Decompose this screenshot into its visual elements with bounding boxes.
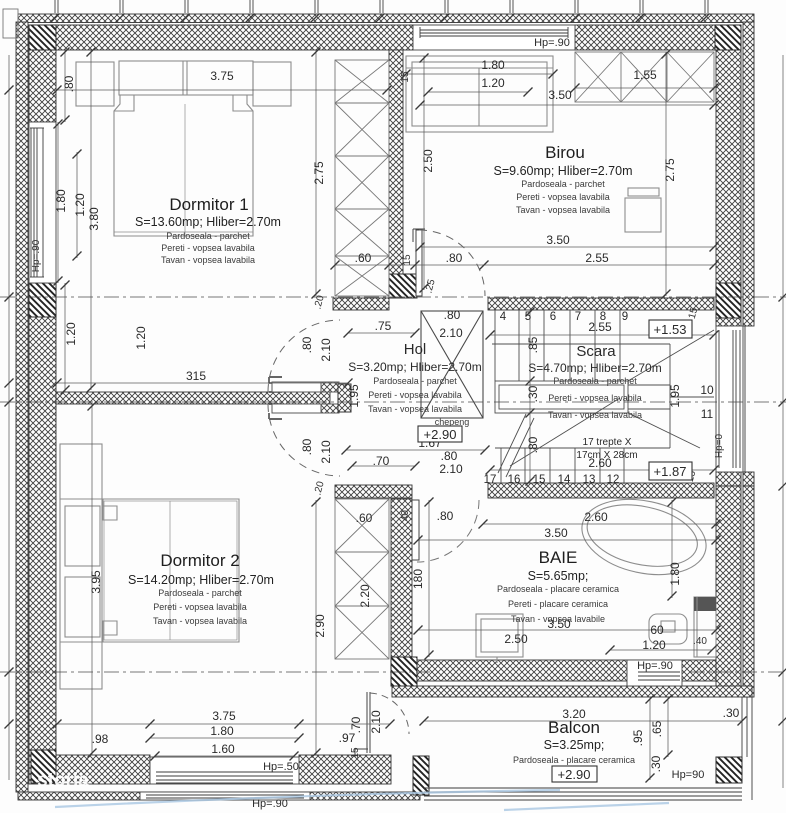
svg-text:1.20: 1.20 <box>64 322 78 346</box>
wall right between windows <box>716 318 741 326</box>
watermark blue wave <box>55 790 669 810</box>
axis line y297 <box>0 296 786 298</box>
staircase scara <box>492 310 714 484</box>
wall right thin band baie <box>743 486 754 697</box>
stair direction line <box>510 398 620 466</box>
svg-text:13: 13 <box>583 474 596 486</box>
svg-text:1.60: 1.60 <box>211 742 235 756</box>
pier balcon west <box>413 756 429 795</box>
dim birou 1.55 closet <box>575 87 714 89</box>
toilet baie <box>649 614 687 644</box>
dim baie 1.20 <box>610 649 712 651</box>
window lower floor bottom band <box>140 792 310 800</box>
dim 315 <box>57 382 348 384</box>
svg-text:.70: .70 <box>373 454 390 468</box>
dim baie 2.60 <box>483 523 716 525</box>
dim birou 1.20 <box>428 91 528 93</box>
svg-text:15: 15 <box>402 254 413 266</box>
svg-text:BAIE: BAIE <box>539 548 578 567</box>
svg-text:Pereti - vopsea lavabila: Pereti - vopsea lavabila <box>161 243 255 253</box>
svg-text:2.10: 2.10 <box>319 440 333 464</box>
dim scara 2.55 <box>490 334 714 336</box>
svg-text:1.80: 1.80 <box>210 724 234 738</box>
svg-text:.80: .80 <box>62 75 76 92</box>
svg-text:.95: .95 <box>631 729 645 746</box>
svg-text:1.55: 1.55 <box>633 68 657 82</box>
svg-text:6: 6 <box>550 311 556 323</box>
wall birou-scara <box>488 298 714 310</box>
svg-text:17 trepte X: 17 trepte X <box>583 437 632 448</box>
dim birou 3.50 top <box>420 104 714 106</box>
dim dorm1 3.80 <box>90 50 92 390</box>
svg-text:Hp=90: Hp=90 <box>672 769 705 781</box>
dim birou 1.80 couch <box>406 73 553 75</box>
svg-text:180: 180 <box>411 569 425 589</box>
svg-text:1.95: 1.95 <box>668 384 682 408</box>
dim scara vertical .85 .30 .80 <box>529 310 531 483</box>
dim baie 180 vertical left <box>428 500 430 657</box>
svg-text:Pardoseala - parchet: Pardoseala - parchet <box>373 376 457 386</box>
svg-text:2.50: 2.50 <box>421 149 435 173</box>
svg-text:.85: .85 <box>526 336 540 353</box>
svg-text:1.20: 1.20 <box>481 76 505 90</box>
svg-text:.60: .60 <box>355 251 372 265</box>
dim dorm1 .80 vertical <box>64 50 66 122</box>
pier balcon east corner <box>716 757 742 783</box>
wall left main mid <box>29 317 56 755</box>
svg-text:3.95: 3.95 <box>89 570 103 594</box>
axis line y672 <box>0 671 430 673</box>
svg-text:.80: .80 <box>300 336 314 353</box>
svg-text:Pardoseala - parchet: Pardoseala - parchet <box>521 179 605 189</box>
wall hol-dorm2 stub <box>335 485 412 498</box>
svg-text:.80: .80 <box>526 436 540 453</box>
svg-text:3.50: 3.50 <box>546 233 570 247</box>
nightstand dormitor1 left <box>76 62 114 106</box>
svg-text:S=5.65mp;: S=5.65mp; <box>528 569 589 583</box>
wall dormitor1-birou <box>389 50 403 274</box>
svg-text:Tavan - vopsea lavabila: Tavan - vopsea lavabila <box>161 255 255 265</box>
pier corner top-left <box>29 25 56 50</box>
nightstand dormitor1 right <box>253 62 291 106</box>
dim dorm2 2.90 vertical <box>315 500 317 755</box>
closet dormitor2 <box>335 499 389 659</box>
dim birou 2.75 vertical <box>665 52 667 296</box>
svg-text:3.75: 3.75 <box>212 709 236 723</box>
door leaf balcon <box>367 692 370 753</box>
window scara right Hp=0 <box>716 326 743 472</box>
wall baie bottom <box>417 660 716 681</box>
svg-text:S=4.70mp; Hliber=2.70m: S=4.70mp; Hliber=2.70m <box>528 361 661 375</box>
axis lines <box>0 297 786 672</box>
svg-text:Pereti - vopsea lavabila: Pereti - vopsea lavabila <box>548 393 642 403</box>
svg-text:Hp=.90: Hp=.90 <box>31 239 42 272</box>
dim dorm2 1.60 <box>155 755 294 757</box>
svg-text:1.95: 1.95 <box>347 384 361 408</box>
svg-text:Pardoseala - placare ceramica: Pardoseala - placare ceramica <box>497 584 619 594</box>
dim balcon .65 vertical <box>667 697 669 757</box>
pier dorm1-birou wall end <box>389 274 417 298</box>
wall top main <box>29 25 413 50</box>
door swing birou dashed <box>419 230 485 296</box>
svg-text:Dormitor 1: Dormitor 1 <box>169 195 248 214</box>
svg-text:S=14.20mp; Hliber=2.70m: S=14.20mp; Hliber=2.70m <box>128 573 274 587</box>
svg-text:+1.87: +1.87 <box>654 464 687 479</box>
svg-text:12: 12 <box>607 474 620 486</box>
svg-text:.80: .80 <box>300 438 314 455</box>
svg-text:2.90: 2.90 <box>313 614 327 638</box>
dim baie 3.50 top <box>418 539 716 541</box>
svg-text:.70: .70 <box>349 716 363 733</box>
svg-text:.80: .80 <box>444 308 461 322</box>
dim dorm1 1.20 <box>76 152 78 258</box>
tub baie <box>575 489 713 586</box>
cabinet baie right <box>694 597 716 657</box>
dim dorm1 1.20 lower <box>64 283 66 392</box>
closets <box>335 52 714 659</box>
svg-text:.80: .80 <box>441 449 458 463</box>
dim balcon 3.20 <box>424 720 742 722</box>
svg-text:1.80: 1.80 <box>668 562 682 586</box>
svg-text:Pereti - vopsea lavabila: Pereti - vopsea lavabila <box>368 390 462 400</box>
chepeng attic hatch <box>421 311 483 418</box>
svg-text:Hol: Hol <box>404 341 427 358</box>
svg-text:Dormitor 2: Dormitor 2 <box>160 551 239 570</box>
svg-text:2.50: 2.50 <box>504 632 528 646</box>
dim birou 3.50 bottom <box>420 246 714 248</box>
stair break line <box>498 414 534 477</box>
doors <box>268 229 485 757</box>
svg-text:.30: .30 <box>723 706 740 720</box>
wall dorm2-baie <box>391 499 412 657</box>
svg-text:3.80: 3.80 <box>87 207 101 231</box>
svg-text:2.60: 2.60 <box>584 510 608 524</box>
svg-text:1.20: 1.20 <box>73 193 87 217</box>
svg-text:2.75: 2.75 <box>312 161 326 185</box>
closet dormitor1 <box>335 60 389 296</box>
svg-text:.75: .75 <box>375 319 392 333</box>
pier corner bottom-left <box>31 750 56 783</box>
desk birou <box>628 188 659 196</box>
stair note <box>576 437 637 461</box>
svg-text:Hp=.90: Hp=.90 <box>252 798 288 810</box>
svg-text:.40: .40 <box>400 510 411 524</box>
hp window texts <box>252 37 704 810</box>
svg-text:Pereti - vopsea lavabila: Pereti - vopsea lavabila <box>153 602 247 612</box>
window dorm2 bottom Hp=.50 <box>150 757 299 784</box>
svg-text:15: 15 <box>350 747 361 759</box>
pier dorm2-baie wall bottom <box>391 657 417 686</box>
dimension texts horizontal <box>92 58 740 756</box>
svg-text:Tavan - vopsea lavabila: Tavan - vopsea lavabila <box>516 205 610 215</box>
window baie bottom Hp=.90 <box>627 660 682 686</box>
stair risers upper flight <box>495 310 620 381</box>
stair landing edge <box>492 343 670 345</box>
svg-text:17cm X 28cm: 17cm X 28cm <box>576 450 637 461</box>
svg-text:Pardoseala - parchet: Pardoseala - parchet <box>166 231 250 241</box>
stairwell right edge <box>669 344 671 448</box>
door swing dormitor1 dashed <box>268 320 340 392</box>
dim hol 1.67 <box>346 449 485 451</box>
dim baie 1.80 vertical <box>671 500 673 598</box>
dim margin left vertical <box>8 55 10 780</box>
svg-text:9: 9 <box>622 311 628 323</box>
svg-text:11: 11 <box>701 407 714 421</box>
svg-text:5: 5 <box>525 311 531 323</box>
svg-text:1.80: 1.80 <box>54 189 68 213</box>
door swing baie <box>417 500 479 562</box>
svg-text:17: 17 <box>484 474 497 486</box>
svg-text:.60: .60 <box>356 511 373 525</box>
closet birou <box>575 52 714 102</box>
svg-text:1.80: 1.80 <box>481 58 505 72</box>
svg-text:.80: .80 <box>437 509 454 523</box>
svg-text:Tavan - vopsea lavabila: Tavan - vopsea lavabila <box>368 404 462 414</box>
couch birou <box>406 56 553 132</box>
wall right baie <box>716 486 741 690</box>
dim scara 2.60 <box>490 469 714 471</box>
furniture <box>60 56 716 689</box>
svg-text:8: 8 <box>600 311 606 323</box>
stair risers lower flight <box>501 448 624 484</box>
svg-text:Hp=0: Hp=0 <box>714 433 725 458</box>
top railing posts <box>55 0 708 13</box>
svg-text:2.75: 2.75 <box>663 158 677 182</box>
dim hol .75 <box>348 332 415 334</box>
wall right below stair window <box>716 472 741 486</box>
dim dorm2 3.95 vertical <box>91 404 93 755</box>
svg-text:Tavan - vopsea lavabila: Tavan - vopsea lavabila <box>153 616 247 626</box>
bed dormitor2 mattress <box>102 499 239 642</box>
pier right wall stairs upper <box>716 283 741 318</box>
svg-text:2.10: 2.10 <box>319 338 333 362</box>
door swing balcon dashed <box>370 693 409 734</box>
wall scara-baie <box>488 483 714 498</box>
svg-text:15: 15 <box>533 474 546 486</box>
bed dormitor1 mattress <box>114 95 253 236</box>
wall balcon top thin band <box>392 686 752 697</box>
svg-text:315: 315 <box>186 369 206 383</box>
svg-text:Pardoseala - parchet: Pardoseala - parchet <box>553 376 637 386</box>
svg-text:.98: .98 <box>92 732 109 746</box>
dim dorm1 3.75 <box>57 89 387 91</box>
svg-text:Pereti - vopsea lavabila: Pereti - vopsea lavabila <box>516 192 610 202</box>
svg-text:S=13.60mp; Hliber=2.70m: S=13.60mp; Hliber=2.70m <box>135 215 281 229</box>
wall dorm1-dorm2 <box>56 392 330 404</box>
svg-text:Birou: Birou <box>545 143 585 162</box>
svg-text:2.10: 2.10 <box>369 710 383 734</box>
svg-text:.65: .65 <box>650 720 664 737</box>
svg-text:3.50: 3.50 <box>544 526 568 540</box>
dimension texts rotated <box>31 71 725 772</box>
svg-text:Hp=.50: Hp=.50 <box>263 761 299 773</box>
dim birou 2.55 <box>484 264 714 266</box>
svg-text:Pereti - placare ceramica: Pereti - placare ceramica <box>508 599 608 609</box>
stair winder lines <box>628 330 714 448</box>
svg-text:1.20: 1.20 <box>134 326 148 350</box>
dim margin right vertical <box>782 55 784 788</box>
svg-text:3.50: 3.50 <box>548 88 572 102</box>
svg-text:Pardoseala - placare ceramica: Pardoseala - placare ceramica <box>513 755 635 765</box>
svg-text:storia: storia <box>37 770 89 791</box>
wall bottom thin band <box>18 792 420 800</box>
svg-text:.40: .40 <box>693 636 707 647</box>
wall right main upper <box>716 50 741 283</box>
dim hol .70 <box>352 465 415 467</box>
wall left thin band <box>16 22 28 792</box>
svg-text:4: 4 <box>500 311 507 323</box>
svg-text:.30: .30 <box>649 755 663 772</box>
pier corner top-right <box>715 25 741 50</box>
svg-text:3.20: 3.20 <box>562 707 586 721</box>
svg-text:Tavan - vopsea lavabila: Tavan - vopsea lavabila <box>548 410 642 420</box>
door leaf baie <box>412 500 419 560</box>
svg-text:3.50: 3.50 <box>547 617 571 631</box>
wall stub hol top left <box>333 298 389 310</box>
stair handrail <box>495 381 628 413</box>
svg-text:10: 10 <box>700 383 714 397</box>
dim dorm1 2.75 closet <box>315 50 317 296</box>
window birou top Hp=.90 <box>413 25 575 50</box>
wall top thin band <box>18 14 754 23</box>
dim dorm2 3.75 bottom <box>57 723 390 725</box>
wall right thin band upper <box>743 22 754 326</box>
svg-text:S=9.60mp; Hliber=2.70m: S=9.60mp; Hliber=2.70m <box>494 164 633 178</box>
svg-text:2.10: 2.10 <box>439 462 463 476</box>
svg-text:Scara: Scara <box>576 343 616 360</box>
dim birou 2.50 vertical <box>423 56 425 290</box>
dim hol top .60 15 .80 <box>335 264 484 266</box>
door leaf birou <box>416 230 422 296</box>
door dormitor1-dormitor2 double jambs <box>269 377 282 419</box>
stair step numbers <box>484 311 629 486</box>
svg-text:2.55: 2.55 <box>585 251 609 265</box>
svg-text:60: 60 <box>650 623 664 637</box>
corner marker top-left <box>3 9 18 38</box>
svg-text:Hp=.90: Hp=.90 <box>534 37 570 49</box>
dim balcon .95 vertical <box>649 697 651 780</box>
svg-text:+1.53: +1.53 <box>654 322 687 337</box>
dim dorm1 1.80 window <box>57 122 59 283</box>
wall left main upper <box>29 50 56 122</box>
svg-text:16: 16 <box>508 474 521 486</box>
svg-text:.30: .30 <box>526 385 540 402</box>
svg-text:14: 14 <box>558 474 571 486</box>
svg-text:S=3.20mp; Hliber=2.70m: S=3.20mp; Hliber=2.70m <box>348 360 481 374</box>
dim dorm2 1.80 window <box>150 737 299 739</box>
room labels <box>128 143 662 765</box>
axis line y402 <box>0 401 786 403</box>
svg-text:+2.90: +2.90 <box>424 427 457 442</box>
balcon railing bottom <box>424 787 742 789</box>
door swing dormitor2 dashed <box>268 404 340 476</box>
svg-text:3.75: 3.75 <box>210 69 234 83</box>
level boxes <box>418 320 692 782</box>
svg-text:7: 7 <box>575 311 581 323</box>
dim baie 3.50 bottom <box>418 629 716 631</box>
svg-text:S=3.25mp;: S=3.25mp; <box>544 738 605 752</box>
svg-text:2.10: 2.10 <box>439 326 463 340</box>
svg-text:Hp=.90: Hp=.90 <box>637 660 673 672</box>
svg-text:Pardoseala - parchet: Pardoseala - parchet <box>158 588 242 598</box>
bed dormitor1 headboard <box>119 61 253 95</box>
pier left wall window <box>29 283 56 317</box>
svg-text:+2.90: +2.90 <box>558 767 591 782</box>
svg-text:.80: .80 <box>446 251 463 265</box>
svg-text:15: 15 <box>400 71 411 83</box>
bed dormitor2 headboard column <box>60 444 102 689</box>
svg-text:1.20: 1.20 <box>642 638 666 652</box>
wall right thin band below window <box>743 472 754 486</box>
svg-text:2.20: 2.20 <box>358 584 372 608</box>
wall dorm2 bottom <box>29 755 150 784</box>
sink baie <box>476 614 523 657</box>
window dormitor1 left Hp=.90 <box>29 122 56 283</box>
